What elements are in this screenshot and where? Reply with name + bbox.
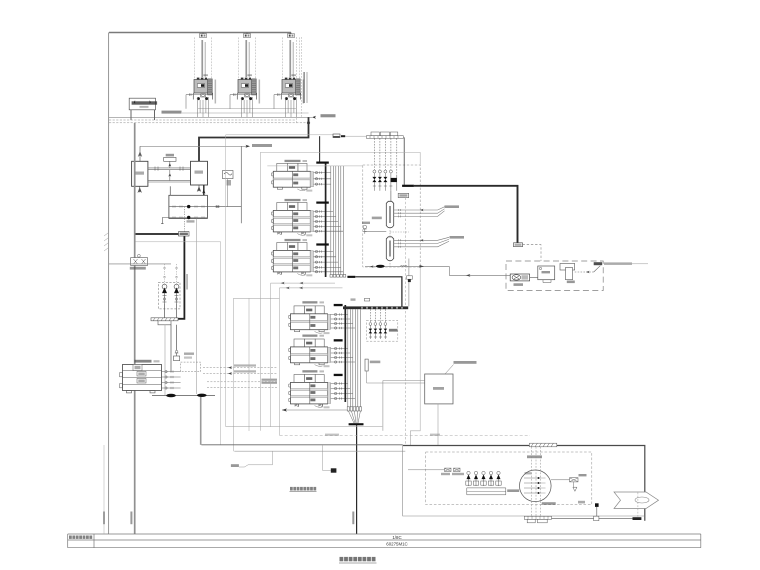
chiller CH-6 bbox=[289, 375, 331, 409]
plate HX A bbox=[161, 195, 241, 233]
P-06 tag bbox=[578, 501, 585, 504]
softener label bbox=[507, 489, 519, 492]
wire HW supply line w/ expansion joint bbox=[365, 265, 510, 277]
wire return loop y241.8 bbox=[136, 242, 221, 445]
wire loop y287.9 bbox=[279, 287, 342, 290]
hatch ticks on left border bbox=[104, 233, 108, 251]
wire instrument drop bbox=[240, 146, 242, 223]
wire drop to CH-1 header bbox=[319, 136, 321, 161]
title table bbox=[68, 534, 701, 548]
big dashed enclosure bbox=[363, 165, 420, 267]
cluster2 dashed box bbox=[367, 320, 398, 341]
riser tags rotated bbox=[103, 512, 354, 525]
wire bypass line bbox=[109, 263, 171, 265]
middle small box bbox=[164, 154, 176, 168]
cooling tower CT-1 bbox=[186, 33, 216, 118]
wire pump suction dotted bbox=[163, 264, 178, 286]
svg-text:60275M1C: 60275M1C bbox=[386, 542, 407, 547]
bottom caption bbox=[339, 557, 377, 563]
cluster2 valve bodies bbox=[369, 329, 388, 334]
arrow to BAS bbox=[312, 114, 336, 119]
wire inner feed y165.9 bbox=[267, 165, 363, 167]
inlet filter set bbox=[408, 468, 464, 475]
wire CH-1 stubs bbox=[314, 172, 331, 186]
wire dashed bus y120 bbox=[109, 119, 296, 121]
dosing device bbox=[365, 359, 380, 371]
junction dark square bbox=[595, 503, 599, 516]
aux tank boxes bbox=[560, 264, 575, 284]
wire converge to bar bbox=[348, 411, 360, 423]
wire dashed risers right of CT-3 bbox=[296, 37, 301, 123]
wire bottom link bbox=[552, 517, 633, 519]
wire CH-5 stubs bbox=[331, 347, 356, 363]
wire loop y283.1 bbox=[271, 282, 335, 285]
bottom terminal strip bbox=[524, 516, 551, 523]
junction box right bbox=[594, 516, 599, 521]
BA signal strip bbox=[343, 306, 408, 309]
wire thick CHW supply bbox=[135, 232, 189, 319]
wire link y298.4 bbox=[233, 297, 279, 299]
AI terminal boxes lower bbox=[347, 407, 361, 411]
wire loop y430.8 bbox=[409, 431, 411, 446]
rotated text right of CT-3 bbox=[303, 72, 307, 103]
pump P2 bbox=[174, 284, 179, 304]
valve column set bbox=[373, 138, 397, 191]
lower-left unit label bbox=[135, 360, 160, 363]
title left text bbox=[69, 536, 92, 539]
junction box bbox=[514, 243, 523, 247]
header bar lower group bbox=[344, 305, 346, 402]
wire thick CHW-S main bbox=[414, 186, 518, 243]
bypass valve box bbox=[130, 254, 148, 269]
chiller CH-5 bbox=[289, 339, 331, 367]
wire dashed DDC drop long bbox=[404, 198, 406, 446]
small inline sensor bbox=[400, 259, 424, 307]
wire CH-4 stubs bbox=[331, 313, 356, 329]
signal tap B bbox=[323, 445, 337, 472]
chiller CH-1 bbox=[272, 163, 314, 191]
wire tank feed left bbox=[383, 381, 425, 431]
cooling tower CT-3 bbox=[274, 33, 304, 118]
return collector bbox=[386, 237, 393, 261]
collector unit legs bbox=[131, 110, 155, 120]
cluster lower links bbox=[390, 191, 392, 202]
hatched tag on top edge bbox=[529, 443, 556, 447]
label BAS interface AI*6 bbox=[162, 111, 182, 114]
dashed instrument box bbox=[181, 362, 201, 372]
wire top supply main bbox=[109, 33, 290, 35]
pump group dashed box bbox=[158, 282, 180, 309]
wire dashed tank risers bbox=[532, 447, 541, 517]
left aux riser bbox=[103, 445, 105, 534]
tank T2 bbox=[191, 161, 208, 185]
wire left border vertical bbox=[108, 33, 110, 535]
pipe coupling bbox=[633, 517, 642, 520]
supply collector bbox=[386, 201, 393, 227]
wire long risers bbox=[233, 283, 279, 451]
wire collector2 outlets bbox=[394, 237, 449, 248]
wire dashed loop y435.5 bbox=[280, 434, 530, 436]
chiller CH-6 label bbox=[302, 370, 324, 372]
strip tag box bbox=[351, 298, 370, 301]
cluster2 label bbox=[389, 329, 398, 332]
expansion joint 1 bbox=[152, 394, 215, 398]
pump P-05 bbox=[510, 274, 529, 286]
wire riser bundle upper bbox=[331, 166, 344, 275]
chiller CH-3 bbox=[272, 243, 314, 277]
soft water tank bbox=[425, 374, 453, 404]
wire tank feet to HX bbox=[170, 185, 205, 195]
HX box P-06 bbox=[538, 266, 555, 283]
chiller CH-2 label bbox=[285, 199, 308, 201]
wire tank1 riser bbox=[139, 146, 142, 161]
chiller CH-1 label bbox=[285, 160, 308, 162]
wire top loop y134.8 bbox=[226, 135, 333, 427]
feed pumps row bbox=[466, 471, 506, 495]
chiller CH-2 bbox=[272, 203, 314, 237]
wire strip drop bbox=[165, 304, 177, 372]
signal labels bbox=[228, 364, 277, 383]
collector bar to DDC bbox=[347, 276, 402, 307]
enclosure box A bbox=[260, 152, 420, 430]
wire gray CHW return main bbox=[134, 123, 136, 534]
wire CH-6 stubs bbox=[331, 382, 356, 399]
mid caption bbox=[290, 487, 317, 492]
pump P1 bbox=[162, 284, 167, 304]
wire bus y117.3 bbox=[109, 116, 312, 118]
control valve above bbox=[174, 350, 195, 360]
wire collector1 outlets bbox=[394, 207, 445, 218]
wire dotted out bbox=[575, 271, 594, 273]
wire dashed signal rows bbox=[203, 368, 278, 388]
header bar upper group bbox=[325, 163, 327, 278]
tank bottom arrows bbox=[138, 185, 200, 192]
chiller CH-5 label bbox=[302, 335, 324, 337]
tank label + leader bbox=[445, 361, 477, 374]
wire tank drop bbox=[437, 404, 439, 446]
wire thick CHW L from bus to tank2 bbox=[199, 117, 310, 161]
wire pump to HX bbox=[530, 276, 538, 278]
cooling tower CT-2 bbox=[230, 33, 260, 118]
wire DDC trunk down bbox=[356, 425, 358, 534]
wire tank links bbox=[148, 167, 191, 183]
terminal strip bbox=[366, 136, 403, 139]
wire loop y451.2 bbox=[234, 450, 405, 452]
label to AHU return bbox=[450, 236, 465, 239]
rotated pump label bbox=[186, 274, 188, 290]
signal tap A bbox=[231, 451, 273, 467]
BA tag box on loop bbox=[333, 134, 366, 138]
inner dashed box bbox=[426, 452, 592, 505]
tank top label bbox=[527, 455, 542, 458]
DDC junction box bbox=[398, 193, 409, 197]
wire bus y113 bbox=[182, 112, 309, 114]
wire dashed bus y122.8 bbox=[109, 122, 309, 124]
header tap bars bbox=[316, 162, 329, 246]
wire main bottom link y444.8 bbox=[201, 444, 402, 446]
wire gray drop to bottom loop bbox=[200, 397, 202, 445]
wire HX return drop bbox=[165, 218, 197, 395]
chiller CH-4 label bbox=[302, 301, 324, 303]
collector unit box bbox=[129, 98, 157, 110]
softener tank circle bbox=[520, 470, 552, 502]
chiller CH-3 label bbox=[285, 239, 308, 241]
supply header bar bbox=[402, 185, 414, 187]
chiller CH-4 bbox=[289, 306, 331, 334]
wire dashed link to HW box bbox=[523, 245, 542, 261]
tank bottom label bbox=[542, 502, 556, 505]
header tap bars lower bbox=[334, 304, 343, 376]
DDC bus bar bbox=[349, 423, 364, 425]
system outer box bbox=[403, 446, 645, 521]
HW dashed box bbox=[506, 261, 603, 291]
lower-left unit body bbox=[120, 365, 162, 393]
safety valve bbox=[551, 474, 587, 491]
wire tower drain bus y108.7 bbox=[198, 108, 296, 110]
label to AHU supply bbox=[445, 205, 460, 208]
wire tank top link y146.3 bbox=[140, 144, 272, 148]
svg-text:1/8C: 1/8C bbox=[392, 535, 401, 540]
wire CH-2 stubs bbox=[314, 210, 344, 232]
valve bodies (filled) bbox=[372, 177, 396, 182]
hatched strip HX bbox=[151, 318, 178, 325]
wire riser bundle lower bbox=[348, 309, 361, 407]
leader + label to DHW bbox=[594, 262, 648, 272]
wire DDC drop bbox=[403, 137, 405, 185]
flow instrument bbox=[223, 171, 234, 207]
bypass valve left bbox=[362, 217, 386, 234]
outfall arrow banner bbox=[614, 492, 659, 518]
wire between collectors bbox=[390, 228, 409, 267]
AI terminal boxes upper bbox=[330, 275, 346, 278]
terminal tabs bbox=[371, 132, 398, 136]
wire loop y426.6 bbox=[226, 426, 383, 428]
tank T1 bbox=[132, 161, 148, 186]
title row texts bbox=[386, 535, 407, 547]
wire CH-3 stubs bbox=[314, 250, 344, 273]
cluster2 columns bbox=[369, 309, 387, 339]
lower-left unit stubs bbox=[162, 371, 181, 390]
expansion joint 2 bbox=[197, 394, 207, 397]
wire arrow line y410 bbox=[282, 408, 348, 411]
wire dosing link bbox=[367, 371, 425, 383]
